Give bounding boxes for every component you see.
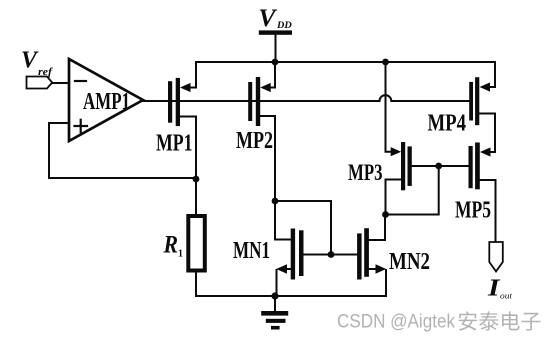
label Iout	[487, 276, 513, 302]
wire feedback from R1 top to non-inverting input	[49, 123, 193, 178]
svg-text:MP3: MP3	[348, 160, 383, 185]
transistor MP4	[469, 62, 495, 152]
node MP3 drain / MN2 drain	[382, 211, 389, 218]
ground rail wire	[196, 295, 386, 297]
wire op-amp output gate line to MP1 MP2 MP4 with hop	[143, 95, 469, 101]
node MP2 drain / MN1 gate-drain	[272, 198, 279, 205]
node R1 top / MP1 drain / feedback	[193, 176, 200, 183]
svg-text:MP5: MP5	[455, 198, 491, 224]
node MP3/MP5 gate junction	[435, 163, 442, 170]
svg-text:R: R	[163, 232, 178, 259]
transistor MP5	[469, 143, 496, 243]
node VDD tick / MP2 source	[272, 59, 279, 66]
wire MP2 drain node down to MN1 gate	[275, 201, 291, 240]
node ground junction / MN1 source	[271, 292, 278, 299]
output terminal Iout	[489, 242, 503, 271]
node MP3 source at VDD rail	[382, 59, 389, 66]
label VDD	[259, 5, 292, 32]
svg-text:MP4: MP4	[428, 110, 467, 136]
node MN1 drain junction	[328, 251, 335, 258]
svg-text:out: out	[500, 290, 513, 300]
svg-text:CSDN @Aigtek: CSDN @Aigtek	[337, 312, 455, 333]
transistor MP2	[248, 62, 275, 198]
ground	[261, 296, 288, 330]
transistor MP3	[386, 62, 412, 211]
svg-text:V: V	[21, 48, 39, 74]
wire MP3 gate to MP5 gate	[412, 165, 469, 167]
wire MN1 drain to MN2 gate	[304, 254, 358, 256]
label R1	[163, 232, 183, 260]
svg-text:V: V	[259, 5, 278, 32]
label Vref	[21, 48, 53, 79]
wire MP2 drain node to MN1 drain node	[275, 201, 331, 251]
svg-text:MP2: MP2	[236, 128, 273, 154]
op-amp AMP1	[69, 59, 143, 141]
svg-text:1: 1	[178, 248, 183, 260]
svg-text:MP1: MP1	[156, 131, 193, 157]
transistor MN2	[357, 218, 386, 296]
wire MP3 drain node to gate node	[386, 166, 439, 215]
wire Vref to op-amp inverting input	[52, 82, 69, 84]
transistor MN1	[276, 229, 303, 297]
power rail VDD	[196, 61, 495, 63]
input terminal Vref	[27, 77, 53, 89]
svg-text:MN2: MN2	[389, 249, 430, 275]
svg-text:DD: DD	[276, 20, 292, 31]
resistor R1	[188, 179, 205, 296]
svg-text:ref: ref	[38, 66, 53, 78]
svg-text:AMP1: AMP1	[83, 89, 130, 115]
svg-text:MN1: MN1	[233, 238, 270, 264]
transistor MP1	[168, 62, 196, 176]
power VDD symbol	[259, 30, 292, 62]
